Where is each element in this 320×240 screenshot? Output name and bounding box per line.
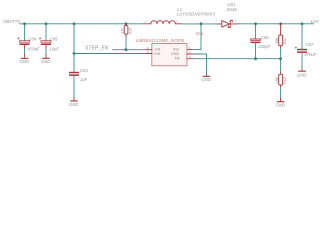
svg-text:+: + — [17, 36, 20, 41]
svg-text:VIN: VIN — [154, 52, 161, 56]
wire SW riser — [193, 24, 201, 50]
svg-text:+: + — [39, 36, 42, 41]
svg-text:GND: GND — [202, 77, 211, 82]
svg-text:R10: R10 — [129, 28, 133, 35]
wire C86 bottom lead — [255, 43, 257, 59]
svg-text:GND: GND — [41, 59, 50, 64]
junction at C85 — [45, 22, 48, 25]
svg-text:R11: R11 — [283, 38, 287, 44]
svg-text:1uF: 1uF — [80, 77, 88, 82]
svg-text:470uF: 470uF — [28, 47, 40, 52]
svg-text:2: 2 — [215, 18, 217, 22]
junction at R2 top — [279, 22, 282, 25]
wire VIN riser — [74, 24, 146, 54]
svg-text:220pF: 220pF — [257, 44, 270, 49]
svg-text:GND: GND — [20, 59, 29, 64]
wire US1 to output label — [237, 23, 314, 25]
ground under R3 — [276, 97, 285, 107]
capacitor C83 — [69, 68, 88, 82]
junction at SW riser — [200, 22, 203, 25]
resistor R3 bottom of divider — [275, 59, 287, 88]
resistor R1 — [120, 24, 132, 38]
svg-text:IC1: IC1 — [196, 31, 204, 36]
pin 1 SW — [187, 49, 193, 51]
svg-text:18k: 18k — [275, 77, 279, 83]
inductor L1 — [143, 7, 216, 24]
wire C85 top lead — [45, 24, 47, 41]
svg-text:VBATT1: VBATT1 — [3, 19, 20, 24]
capacitor C87 — [295, 24, 317, 57]
wire C84 top lead — [24, 24, 26, 41]
wire C83 top lead — [73, 54, 75, 72]
ground under C84 — [20, 54, 29, 64]
svg-text:C86: C86 — [261, 35, 269, 40]
op-amp U1 : boost IC body — [136, 31, 204, 66]
wire STEP_EN to EN — [113, 49, 147, 51]
wire C87 to ground — [301, 53, 303, 70]
junction at C83 tap — [73, 52, 76, 55]
junction FB/C86 — [254, 57, 257, 60]
svg-text:1: 1 — [235, 18, 237, 22]
wire C83 to ground — [73, 76, 75, 97]
svg-text:STEP_EN: STEP_EN — [85, 45, 109, 51]
wire top rail VBATT1 to L1 — [20, 23, 144, 25]
resistor R2 top of divider — [275, 24, 287, 49]
svg-text:GND: GND — [69, 102, 78, 107]
svg-text:GND: GND — [171, 52, 180, 56]
svg-text:C84: C84 — [28, 36, 36, 41]
capacitor C86 — [251, 35, 271, 49]
ground under C83 — [69, 97, 78, 107]
capacitor C84 — [17, 36, 40, 52]
svg-text:12V: 12V — [310, 19, 319, 24]
pin 4 EN — [146, 49, 152, 51]
svg-text:C83: C83 — [80, 68, 88, 73]
junction at C84 — [23, 22, 26, 25]
svg-text:GND: GND — [276, 103, 285, 108]
diode US1 — [215, 2, 237, 27]
ground under IC — [202, 75, 211, 83]
svg-text:1: 1 — [145, 20, 147, 24]
wire L1 to US1 — [182, 23, 217, 25]
svg-text:1M: 1M — [120, 28, 124, 33]
junction at C86 — [254, 22, 257, 25]
wire R2 bottom — [280, 48, 282, 58]
wire R1 bottom — [125, 37, 127, 49]
junction R1/EN — [125, 48, 128, 51]
junction at R1 top — [125, 22, 128, 25]
junction at C87 — [301, 22, 304, 25]
svg-text:10uF: 10uF — [49, 47, 59, 52]
svg-text:LQH55DN6R8M03: LQH55DN6R8M03 — [177, 11, 216, 16]
svg-text:C85: C85 — [50, 36, 58, 41]
pin 5 VIN — [146, 53, 152, 55]
svg-text:R12: R12 — [283, 77, 287, 84]
svg-text:GND: GND — [297, 72, 306, 77]
pin 3 FB — [187, 58, 193, 60]
svg-text:SS34: SS34 — [226, 7, 237, 12]
svg-text:FB: FB — [175, 56, 180, 60]
junction at VIN drop — [73, 22, 76, 25]
wire C86 top lead — [255, 24, 257, 39]
ground under C87 — [297, 69, 306, 77]
wire C84 to ground — [24, 49, 26, 55]
ground under C85 — [41, 54, 50, 64]
svg-text:2: 2 — [176, 20, 178, 24]
svg-text:LMR62421XMF_NOPB: LMR62421XMF_NOPB — [136, 38, 184, 43]
pin 2 GND — [187, 53, 193, 55]
wire R3 to ground — [280, 88, 282, 98]
svg-text:C87: C87 — [306, 42, 314, 47]
junction FB/R2 — [279, 57, 282, 60]
svg-text:56k: 56k — [275, 38, 279, 44]
wire FB net — [193, 58, 281, 60]
wire GND pin drop — [193, 54, 207, 75]
capacitor C85 — [39, 36, 60, 52]
svg-text:470uF: 470uF — [304, 52, 316, 57]
wire C85 to ground — [45, 49, 47, 55]
